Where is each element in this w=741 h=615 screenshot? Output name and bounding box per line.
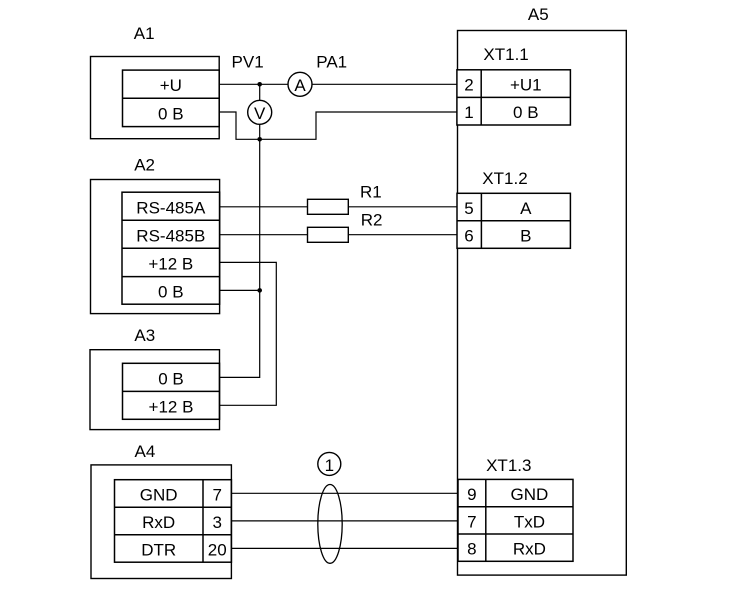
label A1 (134, 24, 155, 43)
pin label TxD (XT1.3) (514, 512, 545, 531)
ammeter PA1 (288, 72, 312, 96)
wire 0 B(A1) to XT1.1 pin 1 (219, 112, 457, 139)
pin label 0 B (A2) (158, 282, 184, 301)
label A4 (135, 442, 156, 461)
wire +12 B(A2) to +12 B(A3) (220, 262, 277, 405)
pin label RS-485B (A2) (136, 226, 205, 245)
label A2 (134, 156, 155, 175)
svg-text:A: A (520, 199, 532, 218)
pin label +12 B (A2) (148, 255, 193, 274)
junction dot node 0 B/PV1 (257, 137, 262, 142)
svg-text:A2: A2 (134, 156, 155, 175)
label PV1 (232, 53, 264, 72)
label R1 (360, 183, 382, 202)
module A3 box (90, 350, 220, 430)
svg-text:1: 1 (325, 456, 334, 475)
cable callout circle 1 (318, 452, 341, 475)
svg-text:A1: A1 (134, 24, 155, 43)
svg-text:PV1: PV1 (232, 53, 264, 72)
svg-text:R2: R2 (361, 210, 383, 229)
pin number 5 (XT1.2) (464, 199, 473, 218)
svg-text:RxD: RxD (513, 540, 546, 559)
module A5 box (458, 31, 627, 576)
svg-text:A5: A5 (528, 5, 549, 24)
terminal block A1 (+U / 0 B) (123, 70, 220, 127)
svg-text:0 B: 0 B (158, 369, 184, 388)
label XT1.3 (486, 456, 531, 475)
label A3 (134, 326, 155, 345)
svg-text:PA1: PA1 (316, 53, 347, 72)
junction dot node 0 B(A2) (257, 288, 262, 293)
svg-text:DTR: DTR (141, 541, 176, 560)
svg-text:GND: GND (140, 486, 178, 505)
wire R1 to XT1.2 pin 5 (348, 206, 457, 208)
svg-text:0 B: 0 B (158, 282, 184, 301)
resistor R1 (308, 199, 349, 214)
svg-text:A3: A3 (134, 326, 155, 345)
svg-text:XT1.1: XT1.1 (483, 45, 528, 64)
pin label 0 B (A3) (158, 369, 184, 388)
pin number 2 (XT1.1) (464, 76, 473, 95)
svg-text:+12 B: +12 B (148, 255, 193, 274)
pin number 20 (A4) (208, 541, 227, 560)
pin number 7 (A4) (212, 486, 221, 505)
svg-text:RS-485B: RS-485B (136, 226, 205, 245)
module A4 box (91, 465, 231, 579)
connector XT1.3 (458, 479, 573, 561)
pin label B (XT1.2) (520, 227, 531, 246)
pin number 7 (XT1.3) (467, 512, 476, 531)
wire 0 B(A2) to bus (220, 289, 260, 291)
svg-text:V: V (254, 104, 266, 123)
pin number 6 (XT1.2) (464, 227, 473, 246)
svg-text:0 B: 0 B (158, 105, 184, 124)
svg-text:6: 6 (464, 227, 473, 246)
pin label 0 B (A1) (158, 105, 184, 124)
label XT1.1 (483, 45, 528, 64)
svg-text:5: 5 (464, 199, 473, 218)
pin label 0 B (XT1.1) (513, 103, 539, 122)
wire +U(A1) to XT1.1 pin 2 (219, 83, 457, 85)
svg-text:3: 3 (212, 513, 221, 532)
svg-text:RS-485A: RS-485A (136, 198, 206, 217)
svg-text:RxD: RxD (142, 513, 175, 532)
svg-text:+U: +U (160, 76, 182, 95)
connector XT1.2 (457, 193, 570, 248)
voltmeter PV1 (248, 100, 272, 124)
pin label RS-485A (A2) (136, 198, 206, 217)
pin label A (XT1.2) (520, 199, 532, 218)
pin label +12 B (A3) (149, 397, 194, 416)
pin label RxD (A4) (142, 513, 175, 532)
connector XT1.1 (457, 70, 571, 125)
svg-text:A: A (294, 76, 306, 95)
wire RS-485B(A2) to R2 (220, 234, 308, 236)
svg-text:20: 20 (208, 541, 227, 560)
svg-text:+12 B: +12 B (149, 397, 194, 416)
label PA1 (316, 53, 347, 72)
svg-text:7: 7 (467, 512, 476, 531)
label XT1.2 (482, 169, 527, 188)
svg-text:A4: A4 (135, 442, 156, 461)
terminal block A4 (GND 7 / RxD 3 / DTR 20) (115, 480, 232, 563)
svg-text:XT1.3: XT1.3 (486, 456, 531, 475)
wire 0 B bus vertical to A3 (220, 139, 260, 377)
pin label +U (A1) (160, 76, 182, 95)
svg-text:7: 7 (212, 486, 221, 505)
pin label DTR (A4) (141, 541, 176, 560)
module A2 box (91, 180, 220, 314)
wire RxD(A4) to XT1.3 pin 7 (231, 520, 458, 522)
label A5 (528, 5, 549, 24)
svg-text:GND: GND (511, 485, 549, 504)
svg-text:8: 8 (467, 540, 476, 559)
label R2 (361, 210, 383, 229)
wire R2 to XT1.2 pin 6 (348, 234, 457, 236)
svg-text:0 B: 0 B (513, 103, 539, 122)
cable shield ellipse (318, 485, 342, 564)
pin label GND (A4) (140, 486, 178, 505)
svg-text:XT1.2: XT1.2 (482, 169, 527, 188)
wire voltmeter branch (259, 84, 261, 139)
wire DTR(A4) to XT1.3 pin 8 (231, 547, 458, 549)
junction dot node +U/PV1 (257, 82, 262, 87)
svg-text:R1: R1 (360, 183, 382, 202)
resistor R2 (308, 227, 349, 242)
terminal block A2 (RS-485A / RS-485B / +12 B / 0 B) (122, 192, 220, 304)
pin number 3 (A4) (212, 513, 221, 532)
pin label +U1 (XT1.1) (510, 76, 542, 95)
pin label GND (XT1.3) (511, 485, 549, 504)
svg-text:2: 2 (464, 76, 473, 95)
svg-text:TxD: TxD (514, 512, 545, 531)
svg-text:9: 9 (467, 485, 476, 504)
wire GND(A4) to XT1.3 pin 9 (231, 492, 458, 494)
svg-text:1: 1 (464, 103, 473, 122)
module A1 box (91, 57, 220, 139)
svg-text:+U1: +U1 (510, 76, 542, 95)
wire RS-485A(A2) to R1 (220, 206, 308, 208)
pin number 9 (XT1.3) (467, 485, 476, 504)
pin label RxD (XT1.3) (513, 540, 546, 559)
pin number 8 (XT1.3) (467, 540, 476, 559)
terminal block A3 (0 B / +12 B) (123, 363, 220, 419)
svg-text:B: B (520, 227, 531, 246)
pin number 1 (XT1.1) (464, 103, 473, 122)
